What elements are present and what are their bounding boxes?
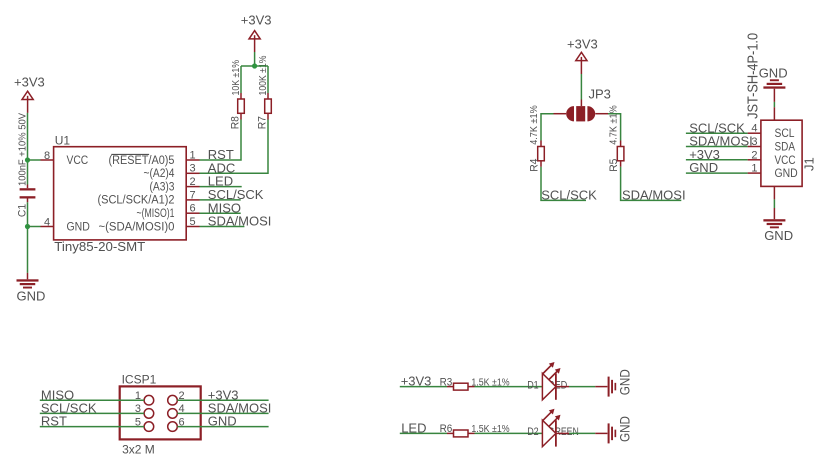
- wire R5 to SDA/MOSI: [621, 167, 682, 201]
- resistor R7: [256, 55, 271, 129]
- svg-text:JP3: JP3: [589, 86, 611, 101]
- svg-text:1: 1: [751, 163, 757, 175]
- wire pin4: [28, 226, 41, 228]
- wire J1 to GND bottom: [773, 186, 775, 199]
- resistor R4: [528, 105, 544, 172]
- ground GND (C1): [17, 273, 46, 304]
- pin 4 GND stub: [41, 226, 54, 228]
- junction +3V3 rail: [252, 63, 257, 68]
- wire D1 to GND: [569, 386, 595, 388]
- svg-text:GND: GND: [208, 414, 237, 429]
- ground GND (J1 bottom): [763, 208, 793, 243]
- svg-text:100nF +10% 50V: 100nF +10% 50V: [17, 113, 28, 186]
- resistor R6: [440, 423, 510, 437]
- wire R3 to D1: [475, 386, 543, 388]
- svg-text:SDA/MOSI: SDA/MOSI: [208, 214, 272, 229]
- wire net SDA/MOSI: [200, 226, 245, 228]
- svg-text:7: 7: [190, 189, 196, 201]
- LED D2: [542, 409, 569, 447]
- svg-text:SCL: SCL: [775, 128, 796, 140]
- wire net SCL/SCK (ICSP): [40, 412, 144, 414]
- ground GND (D2, rotated): [595, 416, 632, 443]
- svg-text:U1: U1: [55, 134, 71, 148]
- svg-text:(SCL/SCK/A1)2: (SCL/SCK/A1)2: [98, 195, 175, 207]
- IC U1: [41, 134, 200, 254]
- pin 8 VCC stub: [41, 159, 54, 161]
- jumper JP3: [566, 86, 611, 121]
- power +3V3 rail of C1/U1: [14, 74, 45, 113]
- svg-text:2: 2: [190, 176, 196, 188]
- resistor R5: [608, 105, 624, 172]
- svg-text:4: 4: [44, 216, 50, 228]
- svg-text:GND: GND: [617, 416, 633, 442]
- wire net GND (J1): [686, 172, 748, 174]
- svg-text:+3V3: +3V3: [401, 374, 432, 389]
- svg-text:GND: GND: [775, 168, 798, 180]
- svg-text:+3V3: +3V3: [241, 12, 272, 27]
- svg-text:R8: R8: [229, 116, 241, 129]
- svg-text:~(SDA/MOSI)0: ~(SDA/MOSI)0: [99, 221, 175, 233]
- wire R8 top: [240, 66, 242, 93]
- wire JP3 pin3 to R5: [595, 113, 608, 115]
- wire pin8: [28, 159, 41, 161]
- wire JP3 pin1 to R4: [554, 113, 567, 115]
- svg-text:4.7K ±1%: 4.7K ±1%: [529, 105, 540, 145]
- svg-text:D1: D1: [527, 379, 539, 391]
- svg-text:~(A2)4: ~(A2)4: [144, 168, 176, 180]
- svg-text:SDA: SDA: [775, 142, 796, 154]
- wire GND to J1: [773, 102, 775, 107]
- wire +3V3 to C1/pin8: [27, 113, 29, 185]
- svg-text:R3: R3: [440, 376, 453, 388]
- junction node VCC/pin8/C1: [25, 157, 30, 162]
- svg-text:5: 5: [190, 216, 196, 228]
- svg-text:J1: J1: [802, 157, 817, 171]
- svg-text:4.7K ±1%: 4.7K ±1%: [608, 105, 619, 145]
- junction node GND/pin4/C1: [25, 224, 30, 229]
- svg-text:2: 2: [751, 149, 757, 161]
- wire +3V3 to JP3: [580, 74, 582, 100]
- svg-text:GND: GND: [759, 65, 788, 80]
- svg-text:6: 6: [190, 203, 196, 215]
- wire net +3V3 (D1 row): [400, 386, 447, 388]
- svg-text:VCC: VCC: [67, 155, 89, 167]
- resistor R3: [440, 376, 510, 390]
- wire net MISO: [200, 212, 241, 214]
- svg-text:D2: D2: [527, 426, 539, 438]
- capacitor C1: [16, 113, 35, 217]
- svg-text:+3V3: +3V3: [567, 36, 598, 51]
- svg-text:SDA/MOSI: SDA/MOSI: [622, 187, 686, 202]
- wire net ADC: [200, 120, 269, 174]
- connector J1: [748, 120, 817, 186]
- svg-text:RST: RST: [41, 414, 67, 429]
- svg-text:3: 3: [190, 163, 196, 175]
- svg-text:GND: GND: [617, 369, 633, 395]
- wire net RST (ICSP): [40, 426, 144, 428]
- wire net SDA/MOSI (J1): [686, 146, 748, 148]
- pin circles: [144, 395, 154, 405]
- ground GND (J1 top, inverted): [759, 65, 788, 102]
- svg-text:+3V3: +3V3: [14, 74, 45, 89]
- wire net LED (D2 row): [400, 432, 447, 434]
- svg-text:SCL/SCK: SCL/SCK: [541, 187, 597, 202]
- svg-text:LED: LED: [401, 421, 426, 436]
- connector ICSP1: [120, 373, 201, 454]
- svg-text:R4: R4: [528, 159, 540, 172]
- wire net SDA/MOSI (ICSP): [177, 412, 268, 414]
- wire net LED: [200, 186, 242, 188]
- U1 right pin stubs: [186, 159, 199, 161]
- svg-text:3x2 M: 3x2 M: [122, 442, 155, 454]
- svg-text:8: 8: [44, 150, 50, 162]
- resistor R8: [229, 60, 244, 129]
- wire R4 to SCL/SCK: [541, 167, 586, 201]
- power +3V3 (JP3): [567, 36, 598, 74]
- svg-text:~(MISO)1: ~(MISO)1: [137, 208, 175, 220]
- svg-text:ICSP1: ICSP1: [122, 373, 157, 387]
- power +3V3 (R8/R7): [241, 12, 272, 52]
- svg-text:C1: C1: [16, 204, 28, 217]
- wire net +3V3 (ICSP): [177, 399, 268, 401]
- svg-text:(RESET/A0)5: (RESET/A0)5: [109, 155, 175, 167]
- svg-text:VCC: VCC: [775, 155, 796, 167]
- svg-text:GND: GND: [764, 228, 793, 243]
- wire net SCL/SCK: [200, 199, 241, 201]
- svg-text:(A3)3: (A3)3: [150, 181, 175, 193]
- svg-text:R6: R6: [440, 423, 453, 435]
- wire net GND (ICSP): [177, 426, 268, 428]
- svg-text:R7: R7: [256, 116, 268, 129]
- wire C1 to GND: [27, 202, 29, 273]
- ground GND (D1, rotated): [595, 369, 632, 396]
- wire +3V3 rail R8/R7: [241, 65, 268, 67]
- svg-text:GND: GND: [17, 288, 46, 303]
- svg-text:GND: GND: [67, 221, 90, 233]
- wire net +3V3 (J1): [686, 159, 748, 161]
- svg-text:Tiny85-20-SMT: Tiny85-20-SMT: [54, 239, 145, 254]
- wire net MISO (ICSP): [40, 399, 144, 401]
- svg-text:GND: GND: [689, 160, 718, 175]
- wire D2 to GND: [569, 432, 595, 434]
- svg-text:1: 1: [190, 149, 196, 161]
- wire R6 to D2: [475, 432, 543, 434]
- wire R7 top: [267, 66, 269, 93]
- svg-text:R5: R5: [608, 159, 620, 172]
- wire net SCL/SCK (J1): [686, 132, 748, 134]
- LED D1: [542, 362, 569, 400]
- wire net RST: [200, 120, 242, 161]
